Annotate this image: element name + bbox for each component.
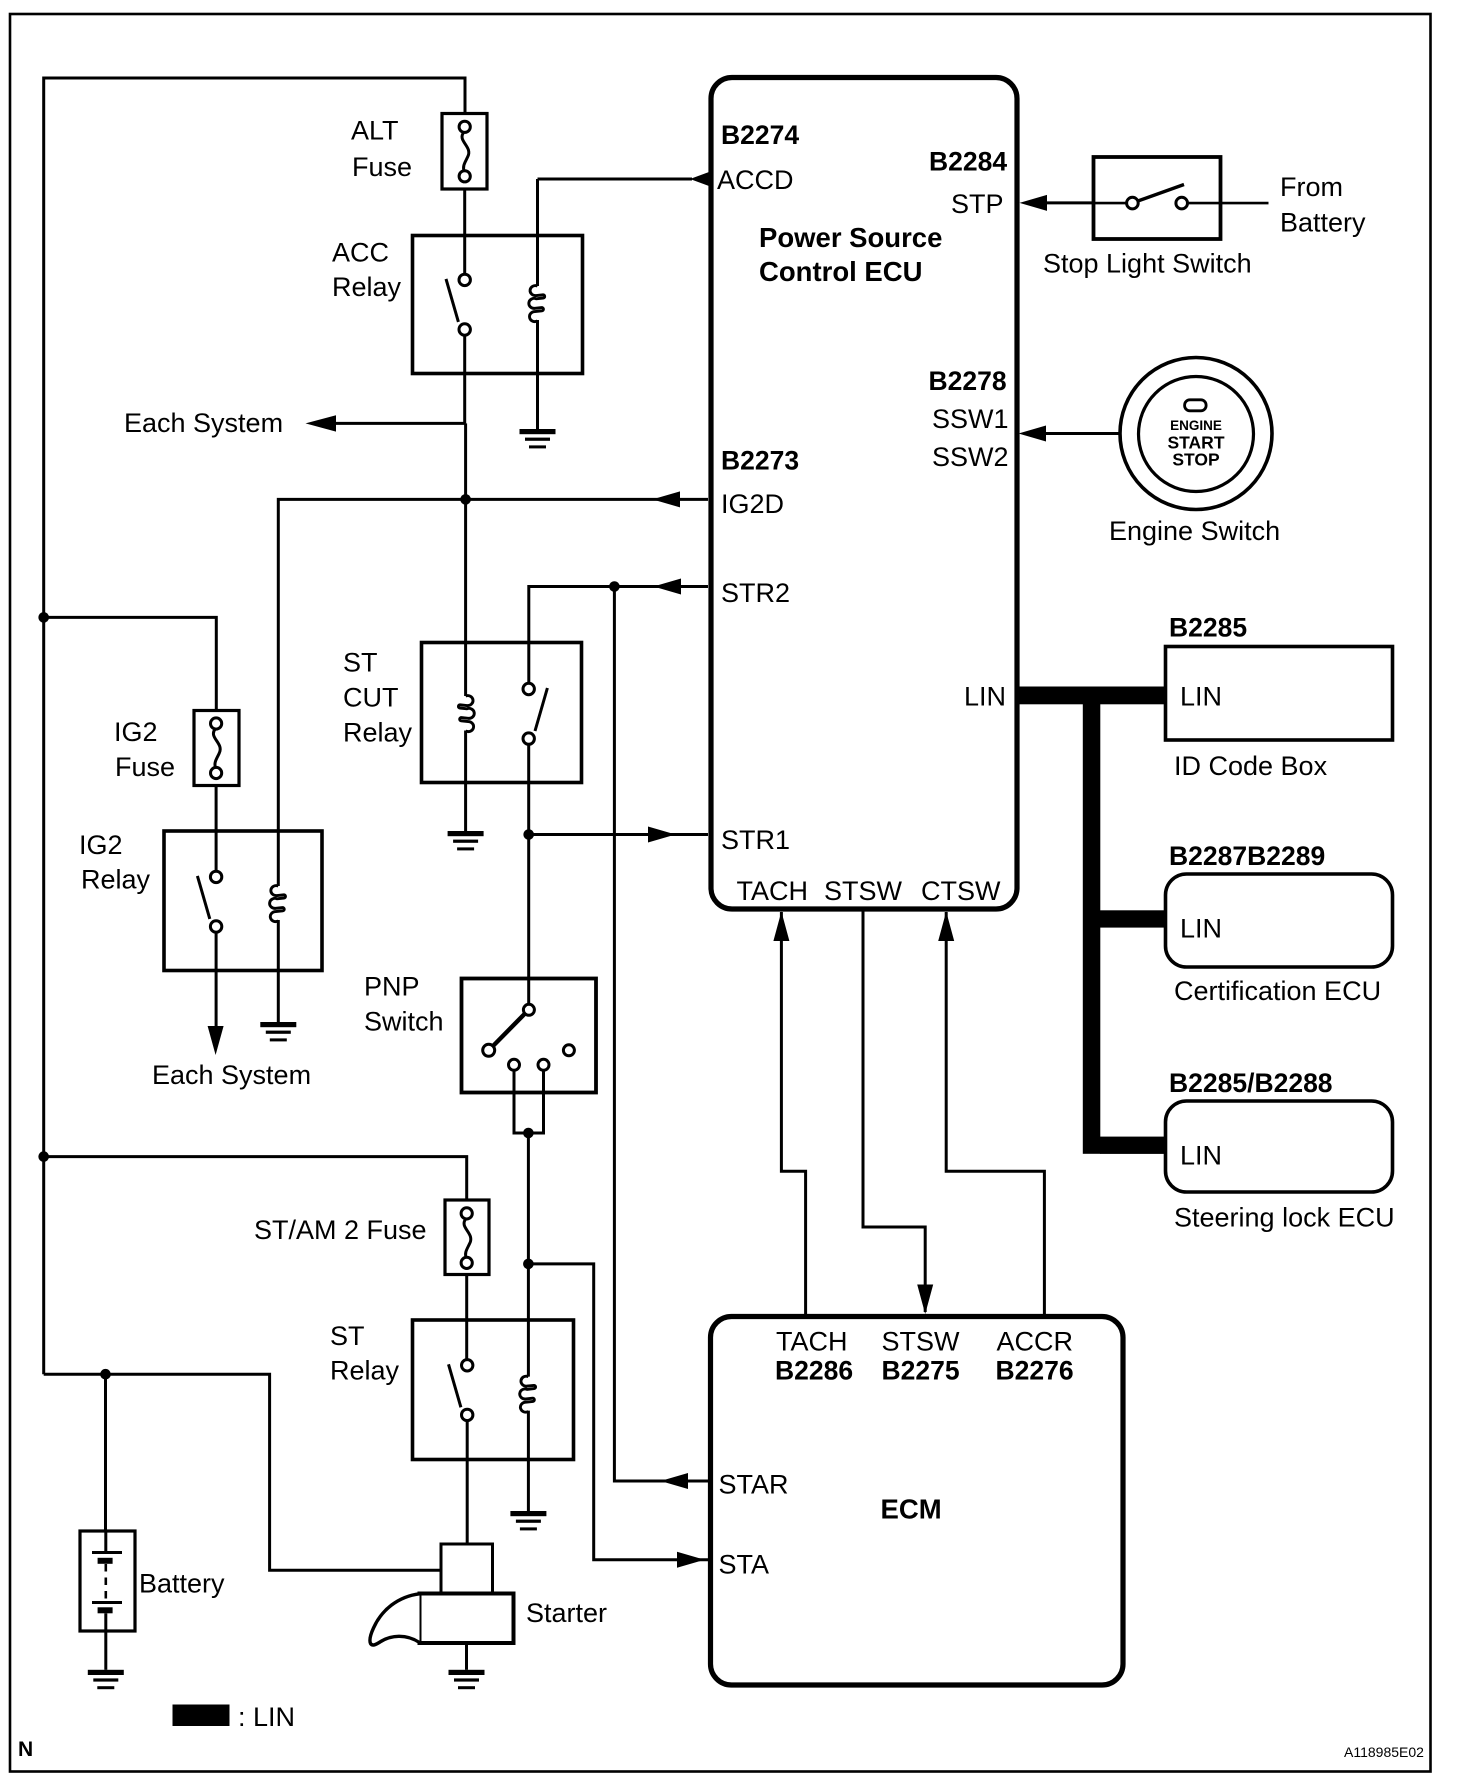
wire from battery to stop light switch (1222, 202, 1269, 205)
legend LIN bus sample (173, 1705, 230, 1727)
svg-text:ST: ST (330, 1321, 365, 1351)
node: junction ACC leg / IG2D wire (460, 494, 471, 505)
wire STA: ST/AM2 junction to ECM (528, 1264, 708, 1560)
svg-text:Fuse: Fuse (352, 152, 412, 182)
svg-text:LIN: LIN (1180, 682, 1222, 712)
ground: starter (465, 1644, 468, 1670)
svg-text:B2285: B2285 (1169, 613, 1247, 643)
wire STP to stop light switch (1046, 201, 1093, 204)
node: junction STA branch (523, 1259, 534, 1270)
node: junction STR1 (523, 829, 534, 840)
svg-text:ECM: ECM (881, 1494, 942, 1525)
engine switch indicator pill (1185, 400, 1207, 411)
LIN bus: main horizontal (1017, 687, 1166, 705)
LIN bus: stub to certification ECU (1100, 910, 1166, 927)
svg-text:Relay: Relay (343, 718, 413, 748)
svg-text:PNP: PNP (364, 972, 420, 1002)
svg-text:STP: STP (951, 189, 1004, 219)
ALT fuse F1 (442, 114, 487, 190)
arrow STSW (points down into ECM) (917, 1285, 933, 1315)
wire: left rail to IG2 fuse (44, 617, 217, 711)
starter motor box (420, 1594, 514, 1644)
arrow STA (points right) (677, 1552, 705, 1568)
arrow ACCD (points left) (690, 171, 711, 187)
node: junction left rail / IG2 branch (38, 612, 49, 623)
svg-text:ALT: ALT (351, 116, 399, 146)
svg-text:TACH: TACH (776, 1327, 848, 1357)
arrow CTSW (points up) (938, 912, 954, 942)
svg-text:TACH: TACH (737, 876, 809, 906)
svg-text:IG2: IG2 (79, 830, 123, 860)
arrow Each System (points left) (306, 415, 337, 431)
wire TACH: ECU to ECM (781, 912, 805, 1314)
wire STAR: junction to ECM (614, 587, 708, 1482)
svg-text:STOP: STOP (1172, 450, 1220, 470)
svg-text:B2274: B2274 (721, 120, 799, 150)
svg-text:STR2: STR2 (721, 578, 790, 608)
ECM box (711, 1317, 1124, 1686)
svg-text:Each System: Each System (152, 1060, 311, 1090)
svg-text:LIN: LIN (1180, 1141, 1222, 1171)
svg-text:STA: STA (719, 1550, 770, 1580)
stop light switch contacts (1094, 202, 1128, 205)
svg-text:STSW: STSW (824, 876, 903, 906)
svg-text:B2275: B2275 (882, 1356, 960, 1386)
wire CTSW: ECU to ECM ACCR (946, 912, 1044, 1314)
wire: ACC relay switch output down (463, 336, 466, 424)
arrow Each System bottom (points down) (208, 1026, 224, 1055)
svg-text:CUT: CUT (343, 683, 399, 713)
svg-text:LIN: LIN (964, 682, 1006, 712)
svg-text:LIN: LIN (1180, 914, 1222, 944)
ST relay coil (520, 1376, 536, 1412)
IG2 relay K2 box (164, 831, 322, 971)
wire: left rail middle segment (42, 616, 45, 1374)
svg-text:N: N (18, 1738, 33, 1761)
ST relay K4 box (413, 1320, 574, 1460)
svg-text:ACCD: ACCD (717, 165, 794, 195)
IG2 relay coil (270, 886, 286, 922)
svg-text:Starter: Starter (526, 1598, 607, 1628)
PNP switch box (462, 979, 597, 1093)
node: junction STR2 / STAR branch (609, 581, 620, 592)
ground: IG2 relay coil (260, 1022, 296, 1041)
ACC relay K1 box (413, 236, 583, 374)
wire: down to IG2D junction (464, 423, 467, 499)
engine switch outer ring (1120, 358, 1272, 510)
stop light switch box (1094, 157, 1221, 239)
ST/AM 2 fuse F3 (445, 1200, 489, 1275)
wire: ST relay switch output to starter (466, 1421, 469, 1545)
svg-text:B2276: B2276 (996, 1356, 1074, 1386)
wire Each System (top) (334, 422, 466, 425)
svg-text:Each System: Each System (124, 408, 283, 438)
ST CUT relay switch contact (mirrored) (523, 683, 547, 744)
svg-text:B2284: B2284 (929, 147, 1007, 177)
svg-text:A118985E02: A118985E02 (1344, 1744, 1424, 1760)
ID code box (1166, 647, 1393, 741)
svg-text:ACCR: ACCR (997, 1327, 1074, 1357)
IG2 fuse F2 (194, 711, 239, 786)
IG2 relay switch contact (197, 871, 221, 932)
ST CUT relay K3 box (422, 643, 582, 783)
svg-text:Battery: Battery (139, 1569, 225, 1599)
svg-text:Power Source: Power Source (759, 222, 942, 253)
wire SSW to engine switch (1045, 432, 1119, 435)
engine switch button ring (1139, 377, 1254, 492)
svg-text:B2278: B2278 (929, 366, 1007, 396)
svg-text:Engine Switch: Engine Switch (1109, 516, 1280, 546)
arrow STR1 (points right) (648, 827, 676, 843)
arrow STAR (points left) (661, 1473, 689, 1489)
steering lock ECU box (1166, 1101, 1393, 1192)
arrow STR2 (points left) (654, 579, 682, 595)
svg-text:B2285/B2288: B2285/B2288 (1169, 1068, 1333, 1098)
starter solenoid box (441, 1544, 493, 1594)
svg-text:ST: ST (343, 648, 378, 678)
svg-text:Relay: Relay (332, 272, 402, 302)
svg-text:STAR: STAR (719, 1470, 789, 1500)
certification ECU box (1166, 874, 1393, 967)
svg-text:: LIN: : LIN (238, 1702, 295, 1732)
wire: left rail to ST/AM 2 fuse (44, 1157, 467, 1200)
wire: PNP pole leads joined below (514, 1071, 544, 1134)
wire STR2: ECU to ST CUT relay switch (529, 587, 708, 684)
svg-text:ID Code Box: ID Code Box (1174, 751, 1328, 781)
svg-text:ACC: ACC (332, 238, 389, 268)
node: junction battery feed (100, 1369, 111, 1380)
svg-text:ENGINE: ENGINE (1170, 418, 1222, 433)
wire: junction down to battery (104, 1374, 107, 1531)
ground: ST relay coil (510, 1511, 546, 1530)
svg-text:CTSW: CTSW (921, 876, 1001, 906)
PNP switch blade (493, 1014, 526, 1047)
wire: PNP output down to ST relay coil branch (527, 1133, 530, 1377)
svg-text:Fuse: Fuse (115, 752, 175, 782)
wire: ST CUT switch output down (527, 744, 530, 1011)
starter horn shape (370, 1594, 420, 1645)
svg-text:Stop Light Switch: Stop Light Switch (1043, 249, 1252, 279)
svg-text:Relay: Relay (330, 1356, 400, 1386)
wire IG2D: ECU to IG2 relay coil (278, 499, 708, 886)
ground: ST CUT relay coil (448, 831, 484, 850)
svg-text:SSW1: SSW1 (932, 404, 1009, 434)
svg-text:Relay: Relay (81, 865, 151, 895)
wire STR1 to ECU (529, 833, 708, 836)
wire: IG2 relay switch output down (215, 932, 218, 1028)
svg-text:Switch: Switch (364, 1007, 444, 1037)
svg-text:B2273: B2273 (721, 446, 799, 476)
arrow IG2D (points left) (652, 491, 680, 507)
wire: ST/AM2 fuse to ST relay switch (465, 1275, 468, 1360)
wire: left rail bottom to battery/starter (44, 1374, 441, 1570)
wire ACCD: ACC relay coil to ECU (538, 178, 693, 181)
node: junction PNP output (523, 1128, 534, 1139)
battery cells (104, 1531, 107, 1551)
wire: IG2 fuse to IG2 relay (215, 786, 218, 872)
svg-text:From: From (1280, 172, 1343, 202)
svg-text:B2286: B2286 (775, 1356, 853, 1386)
Power Source Control ECU box (711, 78, 1017, 910)
svg-text:SSW2: SSW2 (932, 442, 1009, 472)
svg-text:B2287B2289: B2287B2289 (1169, 841, 1325, 871)
arrow STP (points left) (1020, 195, 1048, 211)
ST CUT relay coil (464, 504, 467, 696)
arrow SSW1/SSW2 (points left) (1019, 426, 1047, 442)
wire STSW: ECU to ECM (863, 911, 925, 1312)
arrow TACH (points up) (773, 912, 789, 942)
svg-text:STR1: STR1 (721, 825, 790, 855)
svg-text:Steering lock ECU: Steering lock ECU (1174, 1203, 1395, 1233)
LIN bus: stub to steering lock ECU (1100, 1137, 1166, 1154)
ACC relay coil (536, 179, 539, 286)
ACC relay switch contact (446, 274, 470, 335)
svg-text:Control ECU: Control ECU (759, 256, 922, 287)
svg-text:IG2: IG2 (114, 717, 158, 747)
svg-text:Certification ECU: Certification ECU (1174, 976, 1381, 1006)
svg-text:ST/AM 2 Fuse: ST/AM 2 Fuse (254, 1215, 427, 1245)
wire: top feed from left rail to ALT fuse (44, 78, 465, 616)
svg-text:Battery: Battery (1280, 208, 1366, 238)
ground: ACC relay coil (520, 429, 556, 448)
PNP switch contacts (523, 1004, 534, 1015)
svg-text:STSW: STSW (882, 1327, 961, 1357)
ground: battery (88, 1670, 124, 1689)
battery box (80, 1531, 135, 1631)
node: junction left rail / ST-AM2 branch (38, 1151, 49, 1162)
LIN bus: vertical trunk (1083, 687, 1101, 1154)
ST relay switch contact (449, 1360, 473, 1421)
wire: ALT fuse to ACC relay (463, 189, 466, 275)
svg-text:IG2D: IG2D (721, 489, 784, 519)
